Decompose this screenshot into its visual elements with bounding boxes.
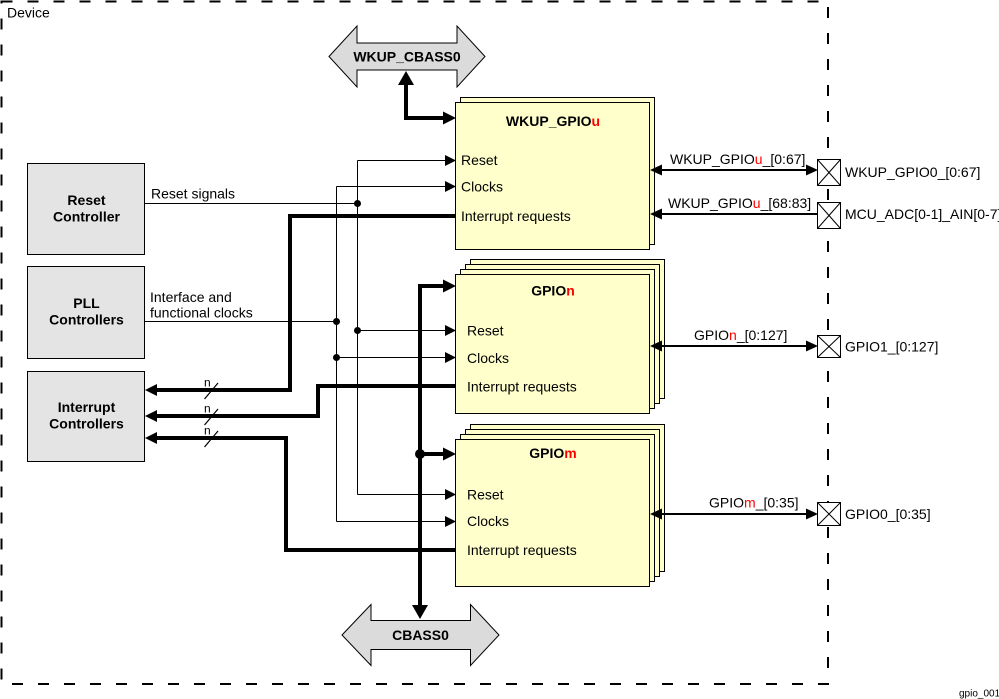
svg-text:GPIO1_[0:127]: GPIO1_[0:127] bbox=[845, 339, 938, 355]
wire trunk to GPIOm (thick) bbox=[420, 448, 456, 461]
svg-text:Interface and: Interface and bbox=[150, 289, 232, 305]
junction reset signals bbox=[354, 200, 361, 207]
bus width n marker 1 bbox=[204, 376, 218, 400]
svg-text:Reset signals: Reset signals bbox=[151, 186, 235, 202]
wire clocks vertical bbox=[336, 187, 338, 522]
svg-text:Reset: Reset bbox=[467, 487, 504, 503]
wire PLL clocks horizontal bbox=[145, 321, 337, 323]
svg-text:Device: Device bbox=[7, 5, 50, 21]
wire reset signals horizontal bbox=[145, 203, 358, 205]
block WKUP_GPIOu (stacked) bbox=[456, 98, 655, 250]
svg-text:Reset: Reset bbox=[467, 323, 504, 339]
bus width n marker 3 bbox=[204, 424, 218, 448]
svg-text:CBASS0: CBASS0 bbox=[392, 627, 449, 643]
svg-text:PLL: PLL bbox=[73, 295, 100, 311]
wire WKUP_GPIOu interrupt requests (thick) bbox=[145, 216, 456, 396]
wire clocks to GPIOm bbox=[337, 516, 457, 527]
svg-text:WKUP_GPIOu_[0:67]: WKUP_GPIOu_[0:67] bbox=[670, 151, 805, 167]
svg-text:n: n bbox=[204, 424, 211, 438]
pad GPIO0 bbox=[818, 503, 841, 526]
svg-text:Controller: Controller bbox=[53, 209, 120, 225]
svg-text:WKUP_GPIO0_[0:67]: WKUP_GPIO0_[0:67] bbox=[845, 164, 980, 180]
svg-text:Controllers: Controllers bbox=[49, 416, 124, 432]
wire WKUP_CBASS0 to WKUP_GPIOu (thick) bbox=[398, 71, 456, 125]
svg-text:GPIOn_[0:127]: GPIOn_[0:127] bbox=[694, 327, 787, 343]
block Reset Controller bbox=[28, 164, 145, 255]
wire CBASS0 trunk (thick) bbox=[412, 280, 456, 620]
WKUP_CBASS0 bus arrow bbox=[329, 26, 485, 87]
svg-text:Clocks: Clocks bbox=[467, 513, 509, 529]
wire reset to GPIOm bbox=[358, 489, 457, 500]
junction reset GPIOn bbox=[354, 327, 361, 334]
wire clocks to GPIOn bbox=[337, 352, 457, 363]
svg-text:WKUP_GPIOu: WKUP_GPIOu bbox=[506, 113, 600, 129]
svg-text:WKUP_GPIOu_[68:83]: WKUP_GPIOu_[68:83] bbox=[668, 195, 811, 211]
wire GPIOn interrupt requests (thick) bbox=[145, 386, 456, 422]
pad GPIO1 bbox=[818, 336, 841, 358]
svg-text:n: n bbox=[204, 402, 211, 416]
wire clocks to WKUP_GPIOu bbox=[337, 181, 457, 192]
wire WKUP_GPIOu_[68:83] bbox=[650, 209, 818, 220]
svg-text:Interrupt: Interrupt bbox=[58, 399, 116, 415]
wire reset vertical bbox=[357, 161, 359, 495]
svg-text:functional clocks: functional clocks bbox=[150, 305, 253, 321]
svg-text:GPIO0_[0:35]: GPIO0_[0:35] bbox=[845, 506, 931, 522]
svg-text:Reset: Reset bbox=[67, 192, 105, 208]
wire reset to WKUP_GPIOu bbox=[358, 155, 457, 166]
svg-text:n: n bbox=[204, 376, 211, 390]
svg-text:GPIOn: GPIOn bbox=[531, 283, 575, 299]
bus width n marker 2 bbox=[204, 402, 218, 426]
wire GPIOm_[0:35] bbox=[650, 509, 818, 520]
junction CBASS0 trunk to GPIOm bbox=[415, 449, 425, 459]
svg-text:Clocks: Clocks bbox=[461, 179, 503, 195]
svg-text:MCU_ADC[0-1]_AIN[0-7]: MCU_ADC[0-1]_AIN[0-7] bbox=[845, 206, 999, 222]
wire reset to GPIOn bbox=[358, 325, 457, 336]
svg-text:Clocks: Clocks bbox=[467, 350, 509, 366]
pad WKUP_GPIO0 bbox=[818, 160, 841, 186]
svg-text:GPIOm: GPIOm bbox=[529, 445, 576, 461]
pad MCU_ADC bbox=[818, 203, 841, 229]
wire WKUP_GPIOu_[0:67] bbox=[650, 165, 818, 176]
svg-text:Controllers: Controllers bbox=[49, 312, 124, 328]
label Interface and functional clocks bbox=[150, 289, 253, 321]
CBASS0 bus arrow bbox=[342, 605, 499, 666]
svg-text:WKUP_CBASS0: WKUP_CBASS0 bbox=[353, 49, 461, 65]
block Interrupt Controllers bbox=[28, 372, 145, 462]
block GPIOn (stacked) bbox=[456, 260, 665, 414]
junction clocks GPIOn bbox=[333, 354, 340, 361]
svg-text:Reset: Reset bbox=[461, 152, 498, 168]
block PLL Controllers bbox=[28, 267, 145, 359]
svg-text:Interrupt requests: Interrupt requests bbox=[461, 208, 571, 224]
wire GPIOm interrupt requests (thick) bbox=[145, 432, 456, 550]
wire GPIOn_[0:127] bbox=[650, 341, 818, 352]
svg-text:Interrupt requests: Interrupt requests bbox=[467, 379, 577, 395]
svg-text:Interrupt requests: Interrupt requests bbox=[467, 542, 577, 558]
svg-text:gpio_001: gpio_001 bbox=[959, 689, 999, 699]
svg-text:GPIOm_[0:35]: GPIOm_[0:35] bbox=[709, 495, 799, 511]
junction clocks PLL bbox=[333, 318, 340, 325]
block GPIOm (stacked) bbox=[456, 425, 665, 587]
